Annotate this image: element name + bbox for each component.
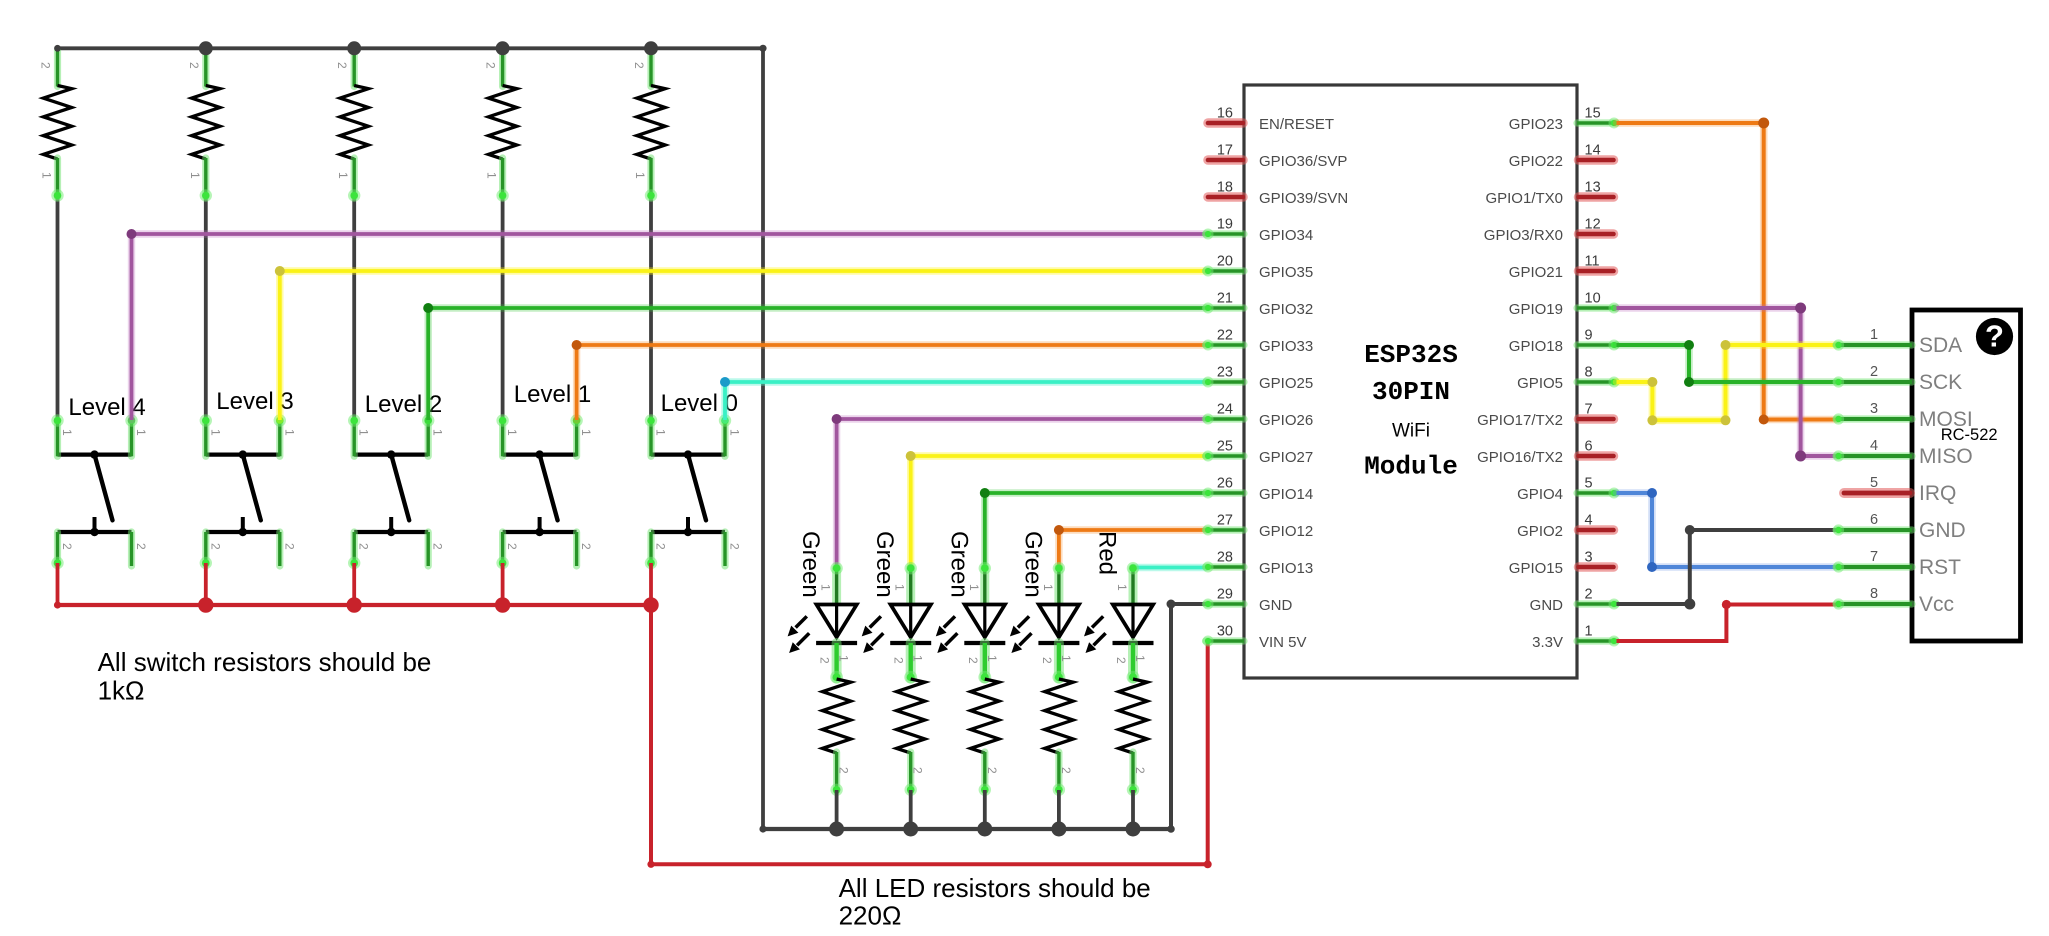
svg-text:2: 2 — [579, 543, 593, 550]
junction: red 3.3V corner — [1722, 600, 1731, 609]
junction: corner of wire at S3 — [423, 303, 433, 313]
svg-text:2: 2 — [1114, 657, 1128, 664]
svg-text:20: 20 — [1217, 254, 1233, 270]
svg-text:GPIO12: GPIO12 — [1259, 523, 1313, 540]
junction: ground bus at LED4 — [1051, 822, 1066, 837]
LED1 (Green) — [788, 531, 858, 684]
LED5 (Red) — [1084, 531, 1154, 684]
svg-text:GPIO2: GPIO2 — [1517, 523, 1563, 540]
wire: ESP32 pin 25 to LED2 anode — [911, 456, 1206, 568]
svg-text:VIN 5V: VIN 5V — [1259, 634, 1307, 651]
junction: top bus at R4 — [496, 41, 510, 55]
switch S5 (Level 0) pushbutton — [645, 390, 742, 569]
wire: R7 pin2 down to ground bus — [909, 790, 913, 829]
svg-text:27: 27 — [1217, 513, 1233, 529]
junction: orange corner at MOSI row — [1759, 415, 1769, 425]
wire: S1 pin1 to ESP32 GPIO (pin 19) — [132, 234, 1206, 420]
junction: red bus at S3 — [347, 597, 362, 612]
pin 2 (SCK) of RC-522 — [1833, 364, 1962, 394]
junction: corner of wire at LED2 — [906, 451, 916, 461]
svg-text:2: 2 — [431, 543, 445, 550]
svg-text:9: 9 — [1585, 328, 1593, 344]
wire: ESP32 GPIO23 (pin 15) to RC-522 MOSI, orange — [1617, 123, 1837, 420]
junction: yellow corner 2 — [1647, 415, 1657, 425]
wire: ESP32 3.3V (pin 1) to RC-522 Vcc, red — [1617, 605, 1837, 642]
pin 17 (GPIO36/SVP) of ESP32 — [1208, 143, 1347, 171]
wire: LED ground bus — [763, 827, 1171, 831]
symbol: unknown-part question mark badge — [1976, 318, 2013, 355]
svg-text:1: 1 — [1133, 655, 1147, 662]
svg-text:GPIO22: GPIO22 — [1509, 153, 1563, 170]
svg-text:28: 28 — [1217, 550, 1233, 566]
svg-text:1: 1 — [282, 429, 296, 436]
svg-text:2: 2 — [818, 657, 832, 664]
svg-text:220Ω: 220Ω — [839, 901, 902, 931]
svg-text:GND: GND — [1919, 519, 1966, 542]
resistor R10 220 ohm (LED5) — [1119, 679, 1147, 796]
svg-text:2: 2 — [985, 767, 999, 774]
pin 4 (MISO) of RC-522 — [1833, 438, 1973, 468]
svg-text:2: 2 — [505, 543, 519, 550]
svg-text:14: 14 — [1585, 143, 1601, 159]
svg-text:2: 2 — [654, 543, 668, 550]
svg-text:23: 23 — [1217, 365, 1233, 381]
pin 1 (SDA) of RC-522 — [1833, 327, 1962, 357]
resistor R2 1k ohm — [187, 51, 220, 202]
junction: red wire corner bottom-left — [647, 861, 654, 868]
pin 4 (GPIO2) of ESP32 — [1517, 513, 1613, 541]
svg-text:15: 15 — [1585, 106, 1601, 122]
svg-text:GPIO5: GPIO5 — [1517, 375, 1563, 392]
svg-text:1: 1 — [40, 172, 54, 179]
svg-text:8: 8 — [1870, 586, 1878, 602]
junction: ground bus at LED5 — [1126, 822, 1141, 837]
svg-text:1: 1 — [1115, 584, 1129, 591]
junction: red bus at S4 — [495, 597, 510, 612]
svg-text:GPIO19: GPIO19 — [1509, 301, 1563, 318]
junction: top bus left end at R1 — [54, 45, 61, 52]
svg-text:18: 18 — [1217, 180, 1233, 196]
svg-text:1: 1 — [505, 429, 519, 436]
svg-text:Module: Module — [1364, 452, 1458, 482]
junction: ground wire corner at pin 29 row — [1167, 600, 1176, 609]
svg-text:2: 2 — [208, 543, 222, 550]
svg-text:11: 11 — [1585, 254, 1600, 270]
wire: ESP32 GND (pin 2) to RC-522 GND, dark — [1617, 530, 1837, 604]
wire: S5 pin2 to red GND/V bus — [649, 563, 653, 605]
junction: red bus at S2 — [198, 597, 213, 612]
svg-text:1: 1 — [967, 584, 981, 591]
junction: dark gnd corner 1 — [1684, 599, 1695, 610]
pin 14 (GPIO22) of ESP32 — [1509, 143, 1614, 171]
svg-text:2: 2 — [1040, 657, 1054, 664]
resistor R7 220 ohm (LED2) — [897, 679, 925, 796]
junction: purple corner at MISO row — [1795, 451, 1806, 462]
svg-text:All switch resistors should be: All switch resistors should be — [98, 647, 432, 677]
junction: blue corner 1 — [1647, 488, 1657, 498]
junction: corner of wire at LED1 — [832, 414, 842, 424]
svg-text:5: 5 — [1870, 475, 1878, 491]
svg-text:GPIO39/SVN: GPIO39/SVN — [1259, 190, 1348, 207]
junction: ground bus left corner — [759, 825, 766, 832]
junction: corner of wire at LED3 — [980, 488, 990, 498]
svg-text:30PIN: 30PIN — [1372, 377, 1450, 407]
svg-text:1: 1 — [654, 429, 668, 436]
pin 12 (GPIO3/RX0) of ESP32 — [1484, 217, 1614, 245]
junction: orange corner top — [1758, 118, 1769, 129]
svg-text:1kΩ: 1kΩ — [98, 675, 145, 705]
svg-text:GPIO17/TX2: GPIO17/TX2 — [1477, 412, 1563, 429]
junction: dark gnd corner 2 — [1685, 525, 1695, 535]
junction: purple corner top — [1795, 303, 1806, 314]
resistor R4 1k ohm — [484, 51, 517, 202]
pin 7 (RST) of RC-522 — [1833, 549, 1961, 579]
svg-text:2: 2 — [39, 62, 53, 69]
svg-text:2: 2 — [892, 657, 906, 664]
svg-text:2: 2 — [1133, 767, 1147, 774]
svg-text:All LED resistors should be: All LED resistors should be — [839, 873, 1151, 903]
junction: top bus at R3 — [347, 41, 361, 55]
svg-text:GND: GND — [1259, 597, 1293, 614]
svg-text:GND: GND — [1530, 597, 1564, 614]
wire: S2 pin2 to red GND/V bus — [204, 563, 208, 605]
pin 2 (GND) of ESP32 — [1530, 587, 1620, 615]
wire: S1 pin2 to red GND/V bus — [56, 563, 60, 605]
wire: R4 pin1 down to switch S4 — [501, 196, 505, 421]
pin 25 (GPIO27) of ESP32 — [1203, 439, 1314, 467]
wire: R9 pin2 down to ground bus — [1057, 790, 1061, 829]
svg-text:4: 4 — [1585, 513, 1593, 529]
resistor R6 220 ohm (LED1) — [822, 679, 850, 796]
LED3 (Green) — [936, 531, 1006, 684]
value label: note about switch resistors — [98, 647, 432, 705]
svg-text:1: 1 — [188, 172, 202, 179]
wire: ESP32 pin 28 to LED5 anode — [1133, 564, 1206, 571]
svg-text:2: 2 — [966, 657, 980, 664]
svg-text:1: 1 — [893, 584, 907, 591]
junction: corner of wire at LED4 — [1054, 525, 1064, 535]
svg-text:1: 1 — [485, 172, 499, 179]
pin 22 (GPIO33) of ESP32 — [1203, 328, 1314, 356]
junction: corner of wire at S1 — [127, 229, 137, 239]
pin 8 (Vcc) of RC-522 — [1833, 586, 1954, 616]
wire: vertical dark wire from top bus down to LED ground bus — [761, 48, 765, 829]
wire: R1 pin1 down to switch S1 — [56, 196, 60, 421]
svg-text:GPIO1/TX0: GPIO1/TX0 — [1485, 190, 1563, 207]
svg-text:2: 2 — [187, 62, 201, 69]
svg-text:EN/RESET: EN/RESET — [1259, 116, 1334, 133]
svg-text:5: 5 — [1585, 476, 1593, 492]
switch S1 (Level 4) pushbutton — [51, 394, 148, 569]
wire: ESP32 pin 26 to LED3 anode — [985, 493, 1206, 568]
junction: corner of wire at S5 — [720, 377, 730, 387]
resistor R8 220 ohm (LED3) — [971, 679, 999, 796]
junction: red bus left end — [54, 601, 61, 608]
wire: top +V bus joining switch resistors R1-R5 — [58, 46, 764, 50]
junction: top bus right corner — [759, 45, 766, 52]
svg-text:GPIO27: GPIO27 — [1259, 449, 1313, 466]
wire: S3 pin1 to ESP32 GPIO (pin 21) — [428, 308, 1205, 420]
svg-text:4: 4 — [1870, 438, 1878, 454]
svg-text:GPIO23: GPIO23 — [1509, 116, 1563, 133]
svg-text:19: 19 — [1217, 217, 1233, 233]
svg-text:12: 12 — [1585, 217, 1601, 233]
pin 16 (EN/RESET) of ESP32 — [1208, 106, 1334, 134]
wire: S2 pin1 to ESP32 GPIO (pin 20) — [280, 271, 1206, 420]
svg-text:7: 7 — [1870, 549, 1878, 565]
switch S2 (Level 3) pushbutton — [200, 388, 297, 569]
wire: R10 pin2 down to ground bus — [1131, 790, 1135, 829]
pin 20 (GPIO35) of ESP32 — [1203, 254, 1314, 282]
LED4 (Green) — [1010, 531, 1080, 684]
wire: ESP32 pin 24 to LED1 anode — [837, 419, 1206, 568]
svg-text:1: 1 — [1059, 655, 1073, 662]
svg-text:IRQ: IRQ — [1919, 482, 1956, 505]
svg-text:10: 10 — [1585, 291, 1601, 307]
resistor R9 220 ohm (LED4) — [1045, 679, 1073, 796]
resistor R1 1k ohm — [39, 51, 72, 202]
svg-text:SDA: SDA — [1919, 334, 1962, 357]
junction: green corner 1 — [1684, 340, 1694, 350]
svg-text:GPIO32: GPIO32 — [1259, 301, 1313, 318]
svg-text:GPIO13: GPIO13 — [1259, 560, 1313, 577]
svg-text:1: 1 — [1870, 327, 1878, 343]
wire: ESP32 GPIO5 (pin 8) to RC-522 SDA, yellow — [1617, 345, 1837, 420]
svg-text:GPIO25: GPIO25 — [1259, 375, 1313, 392]
junction: ground wire corner — [1167, 825, 1175, 833]
svg-text:GPIO3/RX0: GPIO3/RX0 — [1484, 227, 1563, 244]
wire: R3 pin1 down to switch S3 — [352, 196, 356, 421]
svg-text:GPIO14: GPIO14 — [1259, 486, 1313, 503]
pin 19 (GPIO34) of ESP32 — [1203, 217, 1314, 245]
resistor R5 1k ohm — [632, 51, 665, 202]
svg-text:16: 16 — [1217, 106, 1233, 122]
pin 27 (GPIO12) of ESP32 — [1203, 513, 1314, 541]
svg-text:6: 6 — [1585, 439, 1593, 455]
pin 3 (MOSI) of RC-522 — [1833, 401, 1973, 431]
svg-text:1: 1 — [336, 172, 350, 179]
LED2 (Green) — [862, 531, 932, 684]
junction: top bus at R5 — [644, 41, 658, 55]
svg-text:RST: RST — [1919, 556, 1961, 579]
pin 21 (GPIO32) of ESP32 — [1203, 291, 1314, 319]
junction: ground bus at LED3 — [977, 822, 992, 837]
wire: R8 pin2 down to ground bus — [983, 790, 987, 829]
svg-text:1: 1 — [985, 655, 999, 662]
wire: ground bus up to ESP32 GND (pin 29) — [1171, 604, 1206, 829]
svg-text:8: 8 — [1585, 365, 1593, 381]
wire: ESP32 GPIO18 (pin 9) to RC-522 SCK, green — [1617, 345, 1837, 382]
wire: S4 pin1 to ESP32 GPIO (pin 22) — [577, 345, 1206, 420]
pin 5 (IRQ) of RC-522 — [1844, 475, 1956, 505]
junction: red wire corner bottom-right — [1204, 860, 1212, 868]
svg-text:2: 2 — [1059, 767, 1073, 774]
wire: red bus to ESP32 VIN 5V (pin 30) — [651, 605, 1208, 864]
svg-text:1: 1 — [1041, 584, 1055, 591]
svg-text:1: 1 — [357, 429, 371, 436]
svg-text:Vcc: Vcc — [1919, 593, 1954, 616]
svg-text:25: 25 — [1217, 439, 1233, 455]
svg-text:GPIO35: GPIO35 — [1259, 264, 1313, 281]
svg-text:1: 1 — [911, 655, 925, 662]
svg-text:29: 29 — [1217, 587, 1233, 603]
junction: yellow corner 4 — [1721, 340, 1731, 350]
svg-text:2: 2 — [911, 767, 925, 774]
wire: ESP32 pin 27 to LED4 anode — [1059, 530, 1206, 568]
svg-text:GPIO26: GPIO26 — [1259, 412, 1313, 429]
svg-text:30: 30 — [1217, 624, 1233, 640]
svg-text:7: 7 — [1585, 402, 1593, 418]
svg-text:2: 2 — [60, 543, 74, 550]
svg-text:2: 2 — [1585, 587, 1593, 603]
svg-text:1: 1 — [819, 584, 833, 591]
pin 30 (VIN 5V) of ESP32 — [1203, 624, 1307, 652]
switch S4 (Level 1) pushbutton — [496, 381, 593, 569]
wire: R6 pin2 down to ground bus — [835, 790, 839, 829]
svg-text:2: 2 — [837, 767, 851, 774]
wire: S3 pin2 to red GND/V bus — [352, 563, 356, 605]
svg-text:1: 1 — [633, 172, 647, 179]
pin 5 (GPIO4) of ESP32 — [1517, 476, 1619, 504]
wire: S4 pin2 to red GND/V bus — [501, 563, 505, 605]
pin 10 (GPIO19) of ESP32 — [1509, 291, 1620, 319]
junction: red bus at S5 — [643, 597, 658, 612]
svg-text:1: 1 — [1585, 624, 1593, 640]
svg-text:2: 2 — [335, 62, 349, 69]
svg-text:1: 1 — [837, 655, 851, 662]
junction: top bus at R2 — [199, 41, 213, 55]
svg-text:GPIO21: GPIO21 — [1509, 264, 1563, 281]
pin 3 (GPIO15) of ESP32 — [1509, 550, 1614, 578]
svg-text:17: 17 — [1217, 143, 1233, 159]
pin 18 (GPIO39/SVN) of ESP32 — [1208, 180, 1348, 208]
svg-text:3: 3 — [1870, 401, 1878, 417]
pin 23 (GPIO25) of ESP32 — [1203, 365, 1314, 393]
wire: red bus joining all switch pin2 — [58, 603, 652, 607]
junction: corner of wire at S2 — [275, 266, 285, 276]
pin 26 (GPIO14) of ESP32 — [1203, 476, 1314, 504]
junction: ground bus at LED1 — [829, 822, 844, 837]
svg-text:6: 6 — [1870, 512, 1878, 528]
pin 28 (GPIO13) of ESP32 — [1203, 550, 1314, 578]
wire: S5 pin1 to ESP32 GPIO (pin 23) — [725, 382, 1206, 420]
svg-text:GPIO4: GPIO4 — [1517, 486, 1563, 503]
value label: note about LED resistors — [839, 873, 1151, 930]
svg-text:2: 2 — [632, 62, 646, 69]
pin 6 (GPIO16/TX2) of ESP32 — [1477, 439, 1613, 467]
wire: ESP32 GPIO19 (pin 10) to RC-522 MISO, purple — [1617, 308, 1837, 456]
pin 13 (GPIO1/TX0) of ESP32 — [1485, 180, 1613, 208]
svg-text:3: 3 — [1585, 550, 1593, 566]
junction: yellow corner 3 — [1721, 415, 1731, 425]
svg-text:2: 2 — [134, 543, 148, 550]
pin 11 (GPIO21) of ESP32 — [1509, 254, 1614, 282]
junction: blue corner 2 — [1647, 562, 1657, 572]
pin 1 (3.3V) of ESP32 — [1532, 624, 1619, 652]
svg-text:GPIO16/TX2: GPIO16/TX2 — [1477, 449, 1563, 466]
svg-text:?: ? — [1985, 319, 2004, 354]
resistor R3 1k ohm — [335, 51, 368, 202]
wire: ESP32 GPIO4 (pin 5) to RC-522 RST, blue — [1617, 493, 1837, 567]
svg-text:1: 1 — [728, 429, 742, 436]
svg-text:1: 1 — [134, 429, 148, 436]
svg-text:2: 2 — [1870, 364, 1878, 380]
svg-text:13: 13 — [1585, 180, 1601, 196]
junction: green corner 2 — [1684, 377, 1694, 387]
pin 8 (GPIO5) of ESP32 — [1517, 365, 1619, 393]
svg-text:GPIO15: GPIO15 — [1509, 560, 1563, 577]
svg-text:MOSI: MOSI — [1919, 408, 1973, 431]
svg-text:MISO: MISO — [1919, 445, 1973, 468]
op-amp U2: RC-522 RFID module body — [1912, 310, 2021, 641]
svg-text:2: 2 — [728, 543, 742, 550]
wire: R5 pin1 down to switch S5 — [649, 196, 653, 421]
junction: ground bus at LED2 — [903, 822, 918, 837]
svg-text:SCK: SCK — [1919, 371, 1962, 394]
svg-text:3.3V: 3.3V — [1532, 634, 1563, 651]
pin 29 (GND) of ESP32 — [1203, 587, 1293, 615]
svg-text:1: 1 — [579, 429, 593, 436]
junction: corner of wire at S4 — [572, 340, 582, 350]
svg-text:GPIO34: GPIO34 — [1259, 227, 1313, 244]
svg-text:WiFi: WiFi — [1392, 421, 1430, 442]
svg-text:2: 2 — [357, 543, 371, 550]
svg-text:GPIO36/SVP: GPIO36/SVP — [1259, 153, 1347, 170]
svg-text:26: 26 — [1217, 476, 1233, 492]
svg-text:Red: Red — [1094, 531, 1121, 575]
svg-text:1: 1 — [60, 429, 74, 436]
svg-text:GPIO18: GPIO18 — [1509, 338, 1563, 355]
svg-text:24: 24 — [1217, 402, 1233, 418]
pin 6 (GND) of RC-522 — [1833, 512, 1966, 542]
pin 24 (GPIO26) of ESP32 — [1203, 402, 1314, 430]
svg-text:2: 2 — [282, 543, 296, 550]
svg-text:1: 1 — [431, 429, 445, 436]
pin 9 (GPIO18) of ESP32 — [1509, 328, 1620, 356]
op-amp U1: ESP32S 30PIN WiFi Module body — [1244, 85, 1577, 678]
svg-text:2: 2 — [484, 62, 498, 69]
pin 15 (GPIO23) of ESP32 — [1509, 106, 1620, 134]
junction: yellow corner 1 — [1647, 377, 1657, 387]
wire: R2 pin1 down to switch S2 — [204, 196, 208, 421]
svg-text:21: 21 — [1217, 291, 1233, 307]
switch S3 (Level 2) pushbutton — [348, 391, 445, 569]
svg-text:ESP32S: ESP32S — [1364, 340, 1458, 370]
svg-text:1: 1 — [208, 429, 222, 436]
svg-text:GPIO33: GPIO33 — [1259, 338, 1313, 355]
pin 7 (GPIO17/TX2) of ESP32 — [1477, 402, 1613, 430]
svg-text:22: 22 — [1217, 328, 1233, 344]
